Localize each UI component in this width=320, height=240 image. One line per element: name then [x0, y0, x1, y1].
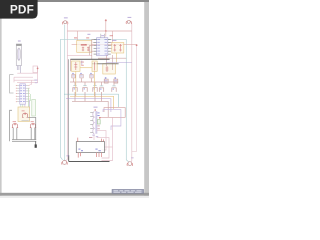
capacitor red mid 2 [93, 62, 95, 71]
transformer T1 [90, 107, 100, 138]
drops below connector [20, 104, 22, 112]
wire: red loop right of transformer [100, 108, 125, 118]
wire: grey bus bar 2 [92, 63, 119, 65]
transistor Q5 [112, 86, 116, 92]
node: red junction [99, 117, 101, 119]
yellow box bias top [77, 40, 92, 52]
label: red text TL431 [81, 44, 87, 45]
resistor red right A [114, 44, 117, 52]
wire: green verticals [28, 88, 30, 108]
component: pink label box [33, 66, 38, 73]
wire: pink elbow right of connector [30, 81, 32, 85]
wire: pink cluster under fuse [14, 66, 38, 83]
capacitor red mid 1 [74, 62, 77, 70]
terminal M top-center [22, 113, 28, 118]
label: red specks above boxes [74, 37, 77, 38]
title block bar [112, 189, 144, 193]
big module box [76, 137, 104, 158]
wire: maroon around IC left [92, 40, 94, 60]
diode D3 [90, 73, 93, 78]
transistor Q4 [99, 86, 103, 92]
yellow box right of IC [112, 43, 124, 54]
wire: pink rail left [66, 25, 68, 161]
label: red text specks [13, 120, 16, 123]
wire: dark bottom bus [69, 161, 110, 163]
diode D4 [104, 77, 108, 83]
label: red specks mid [81, 61, 84, 64]
terminal circle top-right [126, 17, 131, 24]
wire: red horizontal top [72, 44, 137, 46]
diode symbols row [72, 73, 118, 83]
capacitor red inside [106, 66, 109, 72]
wire: grey feet bar under top M [22, 119, 29, 121]
wire: maroon stubs right of IC [111, 43, 112, 49]
transistor Q3 [93, 86, 97, 92]
terminal M bottom-left [12, 123, 18, 128]
wire: grey vertical primary gnd [68, 59, 70, 161]
wire: maroon bus [72, 101, 108, 117]
wire: pink horizontal mid [68, 54, 93, 56]
wire: yellow link between boxes [80, 67, 92, 69]
wire: grey net left cluster [12, 117, 36, 141]
yellow box mid 2 [92, 61, 97, 71]
wire: red vertical from dot [105, 20, 107, 31]
diode D2 [80, 73, 83, 78]
wire: yellow bus [70, 96, 114, 109]
wire: purple loop [103, 110, 121, 130]
wire: red bus y82 [70, 81, 118, 83]
terminal M bottom-right [30, 123, 36, 128]
node: red dot [37, 68, 39, 70]
wire: pink stub right far [136, 46, 138, 152]
wire: teal rail left B [63, 25, 66, 161]
connector X1 [16, 84, 30, 113]
wire: maroon vert left of box1 [69, 59, 71, 71]
ground mark dark [35, 141, 37, 144]
green box left [32, 100, 36, 117]
wire: grey bus bar 1 [70, 58, 109, 60]
svg-text:PDF: PDF [10, 3, 34, 17]
transistor Q2 [83, 86, 87, 92]
page border left [0, 0, 2, 198]
purple mark between boxes [81, 61, 83, 66]
page border bottom [0, 193, 149, 196]
resistor red right B [119, 44, 122, 52]
yellow box left [18, 107, 30, 122]
grey bracket lower left [10, 110, 12, 141]
node: red junction right [136, 44, 138, 46]
diode D5 [114, 77, 118, 83]
red marks bias [82, 47, 90, 52]
wire: maroon horizontal under IC [98, 57, 126, 59]
diode D1 [72, 73, 75, 78]
page border right [144, 2, 149, 198]
label: purple speck left of IC top [87, 34, 90, 35]
page background [0, 0, 149, 198]
wire: yellow vert link right [116, 53, 118, 64]
wire: teal rail left A [60, 39, 62, 160]
wire: red horizontal bus y31 [67, 30, 132, 32]
transistor Q1 [73, 86, 77, 92]
wire: purple bus [66, 99, 111, 112]
terminal circle bottom-right [127, 157, 134, 166]
fuse holder F1 top-left [16, 40, 21, 73]
wire: teal horizontal top [60, 38, 126, 40]
page border top [0, 0, 149, 2]
label: purple specks [34, 80, 37, 81]
wire: pink loops below transformer [94, 117, 113, 160]
terminal circle bottom-left [62, 155, 69, 164]
PDF badge [0, 0, 38, 19]
wire: teal rail right [126, 39, 128, 162]
wire: maroon verts into yellow box [105, 55, 107, 66]
small yellow box below right [103, 64, 116, 75]
wire: pink rail right [130, 23, 133, 162]
IC U1 center [94, 34, 113, 56]
transistor row [73, 86, 116, 92]
node: red dot top with vertical [105, 19, 107, 21]
wire: teal bus [64, 94, 118, 107]
wire: yellow drops [75, 71, 77, 96]
grey bracket upper left [10, 75, 14, 93]
yellow box mid 1 [72, 61, 81, 71]
wire: purple horizontal right [106, 61, 132, 63]
wire: purple vertical [29, 100, 31, 121]
terminal circle top-left [62, 17, 67, 24]
